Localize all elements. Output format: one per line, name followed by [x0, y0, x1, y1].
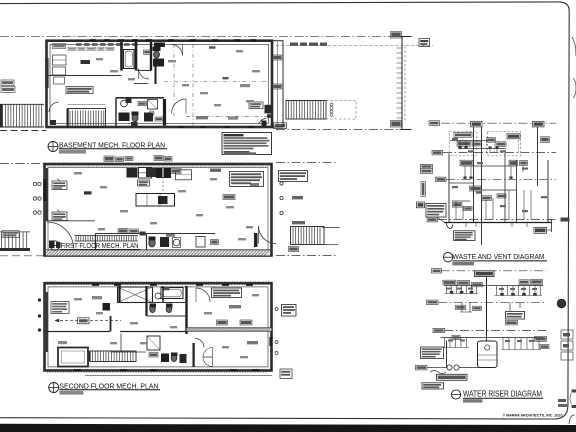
adjacent sheet corner curve top right — [572, 37, 576, 56]
first floor island pendant line — [162, 177, 164, 194]
wv scale box — [453, 262, 475, 265]
second floor extra dimension tags — [74, 298, 82, 300]
basement right areaway wall — [272, 41, 283, 127]
first floor kitchen counter — [127, 168, 138, 178]
wr roof dashdot — [441, 270, 546, 272]
first floor hall label — [84, 191, 92, 194]
second floor tstat box right — [282, 305, 297, 317]
basement right wall label box — [249, 102, 263, 108]
wr size label — [452, 335, 460, 339]
basement grid line horizontal 1 — [164, 81, 268, 83]
property line south segment — [276, 129, 403, 131]
basement den label — [209, 46, 216, 48]
wv stack vent 3 — [537, 127, 539, 186]
wr meters — [447, 365, 452, 370]
basement left wall window band — [45, 58, 48, 88]
adjacent sheet small marks bottom right — [558, 399, 566, 402]
first floor counter labels — [171, 169, 181, 174]
basement gas note box — [222, 133, 272, 155]
second floor M label — [78, 318, 90, 324]
wr left branch vertical — [446, 341, 448, 368]
first floor bath fixtures bottom — [149, 239, 155, 247]
first floor stair enclosure — [96, 233, 216, 235]
basement door arc bath — [139, 69, 150, 80]
second floor room labels — [229, 305, 241, 308]
basement bottom right corner fixture — [262, 121, 267, 127]
wv house trap note box — [454, 231, 476, 241]
second floor top room door arc — [196, 288, 210, 302]
first floor provide label — [2, 231, 19, 238]
basement window sill marks bottom — [178, 126, 184, 128]
second floor note box top — [212, 288, 242, 298]
basement door arc hall top — [172, 45, 183, 56]
wv fixture boxes 2nd — [460, 160, 473, 166]
basement bath2 small labels — [138, 102, 147, 106]
wr upper drops left — [446, 286, 448, 294]
wv side label near border — [541, 137, 550, 143]
basement stair rail — [68, 104, 106, 106]
yard fence bottom label — [391, 121, 402, 128]
first floor range — [156, 168, 163, 178]
wv co box 2 — [533, 121, 545, 127]
basement outside label box — [274, 123, 287, 129]
second floor right wall circles — [275, 308, 278, 311]
basement note label box — [66, 87, 93, 94]
second floor window sill marks — [92, 284, 99, 286]
wr basement dashdot — [445, 330, 547, 332]
first floor small label mid — [223, 195, 235, 200]
adjacent sheet mark — [561, 218, 570, 222]
wv stack vent 4 — [547, 160, 549, 223]
first floor entry door arc — [47, 222, 74, 249]
first floor labels above stair — [118, 229, 128, 234]
first floor yard dashdot south — [276, 255, 338, 257]
yard fence ticks — [397, 47, 403, 49]
basement scale box — [59, 150, 86, 154]
wr upper manifold — [444, 285, 543, 287]
wv fixture boxes upper — [457, 141, 471, 146]
wr water heater tank — [478, 341, 498, 368]
wv 2nd fl label — [432, 150, 443, 155]
wv dashed pipes short — [486, 140, 488, 153]
first floor c-det tag — [250, 183, 259, 186]
second floor bath partitions — [118, 286, 120, 303]
wv fixture boxes 1st — [470, 186, 482, 191]
basement door arc bath2 — [172, 99, 187, 114]
first floor title underline — [61, 249, 141, 251]
basement outer wall — [47, 41, 273, 127]
first floor yard circles — [280, 182, 283, 185]
adjacent sheet dark circle — [557, 299, 565, 307]
basement bath2 extra fixtures — [126, 99, 132, 104]
first floor front partition — [45, 220, 96, 222]
second floor toilet 2 — [166, 305, 172, 312]
first floor inner wall face — [48, 168, 268, 252]
second floor bath2 cluster — [147, 336, 160, 350]
yard small boxes row — [290, 43, 298, 46]
wr title underline — [463, 397, 543, 399]
second floor sub line — [85, 374, 272, 376]
yard gate label top right — [419, 39, 430, 47]
first floor fridge — [176, 170, 192, 180]
wv fixture branch 2nd floor — [450, 140, 487, 142]
second floor left wall hatch — [44, 292, 48, 352]
first floor note box B in yard — [279, 171, 308, 182]
wr pipe note box — [421, 347, 444, 359]
basement closet door arc bottom left — [49, 102, 59, 112]
second floor bedroom wall hatched — [187, 328, 272, 331]
first floor title circle — [50, 241, 59, 250]
first floor outer wall — [45, 164, 272, 256]
wr top vent box — [475, 271, 495, 277]
wr upper drop feet — [450, 291, 454, 294]
wr main riser — [486, 277, 488, 341]
basement back stair dashed extension — [326, 101, 356, 120]
wv dashed cluster border right — [488, 132, 521, 156]
wr units note box — [437, 374, 468, 380]
wv co box 1 — [471, 121, 483, 127]
wr right lower boxes — [535, 336, 547, 341]
basement bath2 fixtures — [119, 113, 130, 122]
wv bottom drops — [465, 223, 467, 228]
svg-text:BASEMENT MECH. FLOOR PLAN: BASEMENT MECH. FLOOR PLAN — [59, 140, 165, 149]
wr title circle — [451, 390, 460, 399]
basement areaway south line — [0, 130, 47, 132]
basement bath partition wall 2 — [135, 42, 138, 71]
wr service entry squiggle — [430, 371, 446, 374]
second floor outer wall — [45, 283, 272, 370]
first floor rear door arc — [259, 226, 277, 244]
basement dark unit top — [154, 43, 165, 48]
first floor yard dashdot north — [276, 162, 338, 164]
second floor title underline — [59, 389, 160, 391]
basement hall wall — [116, 97, 164, 99]
second floor inner wall face — [48, 287, 268, 367]
first floor counter label under — [138, 180, 150, 186]
wv fresh air inlet — [551, 220, 553, 233]
wv stack mid — [504, 153, 506, 223]
basement right wall pad unit — [265, 105, 272, 114]
svg-text:FIRST FLOOR MECH. PLAN: FIRST FLOOR MECH. PLAN — [61, 241, 139, 250]
wr fixture labels upper left — [443, 280, 456, 285]
first floor labels above wall A — [104, 156, 114, 162]
second floor sink circles — [155, 293, 161, 299]
wr first floor dashdot — [438, 301, 546, 303]
second floor hall toilet — [103, 303, 111, 311]
wv combined drain note — [426, 204, 446, 218]
street dashdot line — [0, 163, 44, 165]
back stair circles — [330, 103, 333, 106]
basement toilet — [153, 47, 161, 52]
first floor stoop dark band — [0, 248, 30, 251]
wr fixture labels upper right — [519, 280, 529, 285]
yard fence top label — [391, 32, 402, 39]
wv vtr label — [454, 133, 472, 138]
wv branch feet mid — [463, 177, 466, 179]
second floor right wall window band — [269, 337, 272, 346]
wr 1st fl label — [427, 300, 439, 304]
second floor title circle — [49, 383, 59, 393]
basement extra dimension tags — [96, 58, 103, 60]
wr water dept box — [422, 383, 444, 389]
basement bath wall right — [150, 42, 152, 71]
second floor closet jamb — [193, 343, 195, 367]
second floor wall cap label — [280, 369, 292, 379]
adjacent sheet title block boxes — [561, 330, 573, 339]
adjacent sheet bracket right edge — [573, 78, 576, 98]
basement bath2 walls — [115, 98, 117, 128]
wr roof label — [432, 269, 442, 273]
basement shower unit — [153, 59, 164, 67]
first floor left wall hatch — [44, 168, 48, 221]
wv leader line — [437, 217, 445, 223]
second floor bay extension — [58, 348, 88, 367]
first floor kitchen island — [136, 194, 175, 207]
basement window sill marks top — [90, 39, 96, 41]
wr sdwlk box — [416, 365, 428, 370]
first floor reg label box 1 — [52, 181, 67, 190]
first floor stair bottom fixtures — [49, 241, 55, 249]
first floor note box A — [230, 172, 264, 187]
basement right door arc small — [259, 118, 267, 124]
second floor thermostat note — [51, 302, 69, 314]
basement grid line horizontal 2 — [186, 115, 268, 117]
wv house trap — [446, 223, 453, 229]
wv stack vent 1 — [473, 127, 475, 223]
second floor closet lines — [120, 334, 122, 353]
first floor extra dimension tags — [74, 172, 82, 174]
yard fence bracket — [401, 37, 403, 130]
second floor toilet — [150, 305, 156, 312]
wv bsmt label — [427, 217, 438, 222]
svg-text:SECOND FLOOR MECH. PLAN: SECOND FLOOR MECH. PLAN — [59, 381, 158, 390]
wv first floor dashdot — [446, 178, 556, 180]
wv stack vent 2 — [481, 127, 483, 245]
basement inner wall face — [50, 44, 269, 123]
first floor front stoop treads — [0, 231, 30, 233]
property line north — [0, 35, 403, 37]
svg-text:© MARRA ARCHITECTS, INC. 2020: © MARRA ARCHITECTS, INC. 2020 — [503, 413, 564, 418]
wv stack left — [448, 154, 450, 223]
second floor bed2 door arc — [195, 339, 204, 348]
wr lower drops left — [444, 338, 446, 348]
yard guard dashed line — [276, 45, 433, 47]
first floor left wall window band — [43, 179, 46, 201]
second floor stair — [90, 351, 136, 362]
first floor labels above wall B — [154, 156, 163, 161]
wv title circle — [443, 253, 452, 262]
first floor back stair — [291, 227, 325, 245]
first floor back stair label — [289, 247, 299, 252]
wr mid level drops — [461, 302, 463, 312]
first floor bottom wall hatch — [46, 250, 270, 256]
basement bottom wall hatch texture — [47, 126, 50, 129]
basement interior scatter labels — [240, 84, 250, 87]
second floor bath2 labels — [149, 353, 158, 358]
wv fixtures above main drain — [453, 202, 463, 207]
wr mid branch boxes — [472, 282, 483, 286]
first floor rear door jamb — [254, 233, 258, 247]
wv roof dashdot line — [441, 122, 556, 124]
wv pipe size tags — [452, 138, 458, 140]
wv drop verticals short — [459, 141, 461, 149]
second floor top wall hatch texture — [46, 281, 49, 284]
wv typ label stack — [421, 164, 433, 168]
wv 1st fl label — [436, 177, 447, 182]
second floor closet double doors — [203, 348, 213, 358]
second floor wd label — [163, 287, 170, 290]
first floor window circles — [33, 182, 36, 185]
basement grid line vertical 2 — [192, 44, 194, 125]
first floor long label above wall right — [224, 152, 256, 155]
wv main drain line — [444, 222, 552, 224]
basement back stair — [286, 101, 326, 120]
first floor top wall hatch texture — [46, 163, 49, 166]
svg-text:WATER RISER DIAGRAM: WATER RISER DIAGRAM — [463, 390, 542, 399]
wr pipe size tags — [446, 288, 451, 290]
basement stair — [68, 109, 106, 128]
basement wc label — [144, 50, 151, 54]
second floor scale box — [59, 391, 83, 395]
svg-text:WASTE AND VENT DIAGRAM: WASTE AND VENT DIAGRAM — [453, 252, 545, 261]
second floor shower stall — [118, 287, 153, 303]
wv lower branch lines — [449, 182, 474, 184]
first floor stair side walls — [95, 234, 97, 251]
first floor stair treads — [75, 236, 77, 242]
wr bsmt label — [433, 328, 445, 332]
wr scale box — [463, 399, 483, 402]
wr upper drops right — [496, 286, 498, 296]
wv roof label — [429, 121, 440, 126]
basement front areaway stair — [0, 103, 44, 105]
wv basement rotated label — [421, 182, 425, 197]
yard fence dashed inner — [404, 46, 406, 123]
wr lower right drops — [502, 338, 504, 350]
front areaway labels — [1, 80, 14, 86]
basement title underline — [59, 148, 167, 150]
wr recirc note boxes — [506, 312, 525, 320]
wv dashed cluster border left — [449, 132, 477, 156]
second floor left wall dots — [38, 298, 41, 301]
adjacent sheet corner tab bottom right — [569, 415, 575, 424]
basement laundry label — [81, 60, 91, 64]
wr lower manifold — [441, 337, 544, 339]
second floor bathtub — [161, 288, 183, 299]
basement grid line vertical 1 — [173, 44, 175, 116]
wv branch feet upper — [458, 147, 461, 149]
wr mid right drops — [509, 302, 511, 311]
first floor sidewalk line — [0, 255, 44, 257]
areaway label boxes — [273, 55, 282, 60]
basement left room furniture — [53, 55, 67, 65]
second floor hall partition vertical — [110, 316, 112, 332]
basement title circle — [48, 142, 58, 152]
wv note small box — [417, 202, 425, 208]
first floor reg label box 2 — [52, 212, 67, 221]
basement ceiling dashed label row — [76, 43, 82, 46]
basement bath partition wall 1 — [120, 42, 123, 71]
wv second floor dashdot — [443, 152, 556, 154]
basement ceiling label boxes row — [68, 47, 76, 50]
basement bathtub — [124, 50, 135, 69]
bottom black bar — [0, 424, 576, 432]
second floor dashed duct line — [55, 320, 121, 322]
basement top left label cluster — [52, 44, 65, 49]
second floor bottom wall hatch texture — [46, 369, 49, 372]
wr mid level boxes — [456, 305, 466, 309]
wv title underline — [453, 260, 548, 262]
basement partition horizontal left — [48, 75, 122, 77]
wv basement dashdot — [438, 219, 556, 221]
second floor hall wall — [45, 331, 111, 333]
